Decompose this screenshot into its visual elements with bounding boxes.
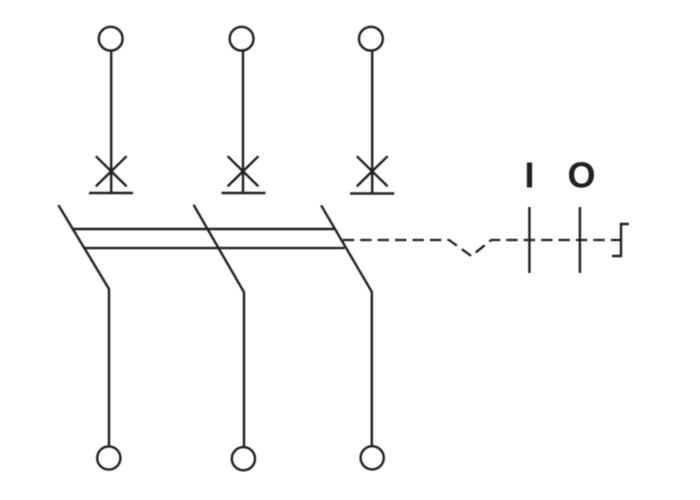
svg-text:O: O (567, 155, 595, 196)
svg-text:I: I (524, 155, 534, 196)
